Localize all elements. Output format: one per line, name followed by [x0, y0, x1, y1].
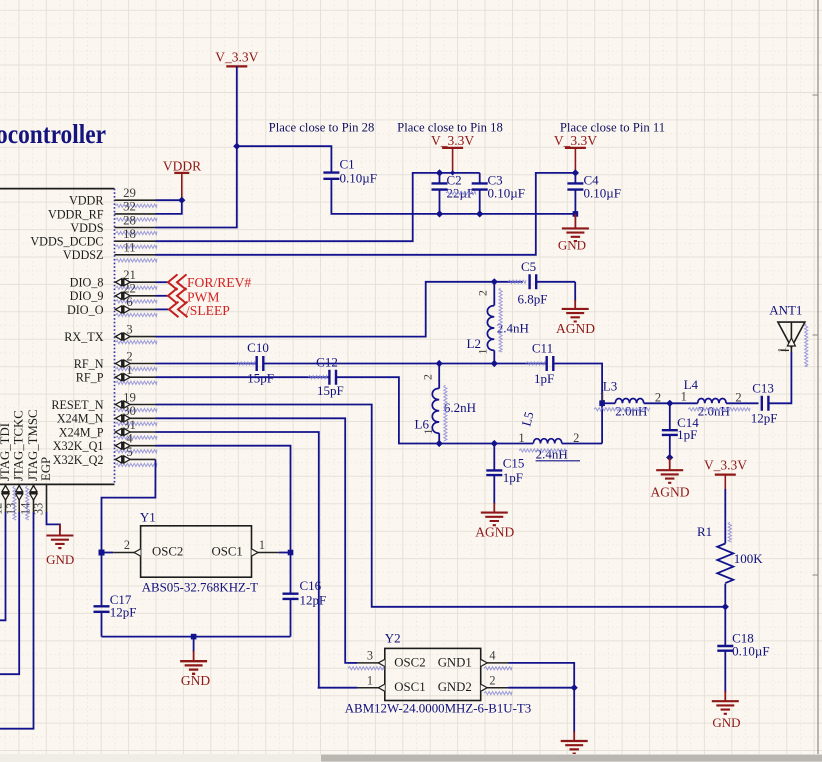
svg-text:GND2: GND2: [438, 680, 472, 694]
node B (L3/L4/C14): [666, 400, 673, 407]
svg-text:FOR/REV#: FOR/REV#: [187, 275, 251, 290]
svg-text:L4: L4: [684, 377, 699, 392]
pin 28 VDDS of U1: [70, 213, 157, 235]
pin 1 OSC1 of Y2: [318, 673, 385, 691]
pin 3 OSC2 of Y2: [348, 649, 385, 670]
pin 5 X32K_Q2 of U1: [53, 445, 157, 467]
node OSC2 junction: [99, 550, 105, 556]
pin 2 OSC2 of Y1: [102, 538, 141, 556]
svg-text:1pF: 1pF: [534, 371, 554, 386]
wire RX_TX to L2/C5: [156, 282, 524, 337]
svg-text:V_3.3V: V_3.3V: [704, 458, 747, 473]
svg-text:6.2nH: 6.2nH: [444, 400, 476, 415]
svg-text:Y2: Y2: [385, 630, 401, 645]
svg-text:0.10µF: 0.10µF: [732, 643, 769, 658]
svg-text:GND: GND: [46, 552, 74, 567]
inductor L2: [467, 282, 529, 364]
svg-text:JTAG_TDI: JTAG_TDI: [0, 423, 12, 481]
pin 33 EGP of U1 (bottom): [31, 457, 53, 515]
svg-text:C13: C13: [752, 380, 774, 395]
scrollbar: [0, 754, 822, 762]
ground AGND (C5): [556, 300, 595, 336]
pin 30 X24M_N of U1: [57, 404, 157, 426]
wire DIO_O: [156, 308, 170, 310]
svg-text:2: 2: [489, 673, 495, 687]
wire X32K_Q1 to Y1 OSC1: [156, 446, 291, 553]
wire C11 to node A: [554, 364, 603, 444]
svg-text:ABS05-32.768KHZ-T: ABS05-32.768KHZ-T: [142, 581, 258, 595]
ground GND (Y1): [180, 637, 210, 688]
capacitor C1: [323, 157, 377, 186]
pin 19 RESET_N of U1: [51, 390, 157, 412]
capacitor C18: [717, 607, 769, 692]
svg-text:2: 2: [421, 374, 435, 380]
node R1/C18/RESET junction: [722, 603, 729, 610]
wire X32K_Q2 to Y1 OSC2: [102, 459, 156, 552]
note Place close to Pin 11: [560, 121, 665, 135]
svg-text:DIO_8: DIO_8: [70, 276, 104, 290]
svg-text:GND1: GND1: [438, 655, 472, 669]
pin 2 GND2 of Y2: [481, 673, 512, 694]
wire DIO_9: [156, 295, 169, 297]
wire RF_N to C10: [156, 363, 257, 365]
inductor L5: [518, 410, 580, 462]
svg-text:VDDSZ: VDDSZ: [63, 248, 104, 262]
port FOR/REV#: [168, 274, 251, 290]
pin 13 JTAG_TCKC of U1 (bottom): [4, 410, 26, 515]
svg-text:1: 1: [259, 538, 265, 552]
svg-text:1: 1: [518, 431, 524, 445]
svg-text:AGND: AGND: [556, 321, 595, 336]
svg-text:VDDR: VDDR: [163, 159, 201, 174]
svg-text:1pF: 1pF: [503, 470, 523, 485]
wire L5 to node A: [562, 443, 602, 445]
svg-text:X24M_N: X24M_N: [57, 412, 104, 426]
node L2 bottom junction: [491, 360, 498, 367]
node VDDR junction: [178, 197, 185, 204]
wire X24M_P to Y2 OSC1: [156, 432, 319, 688]
sheet border right edge: [813, 0, 819, 754]
svg-text:C11: C11: [532, 341, 553, 356]
svg-text:ocontroller: ocontroller: [0, 119, 106, 149]
svg-text:0.10µF: 0.10µF: [488, 186, 525, 201]
pin 14 JTAG_TMSC of U1 (bottom): [18, 409, 40, 515]
svg-text:OSC2: OSC2: [394, 655, 425, 669]
power symbol V_3.3V (R1): [704, 458, 747, 491]
pin 12 JTAG_TDI of U1 (bottom): [0, 423, 12, 515]
wire V_3.3V rail to VDDS pin28: [156, 66, 237, 227]
wire C10 to L6/L2/C11: [264, 363, 547, 365]
svg-text:AGND: AGND: [475, 525, 514, 540]
port PWM: [168, 288, 219, 305]
power symbol V_3.3V (C4): [554, 133, 597, 173]
svg-text:C5: C5: [521, 259, 536, 274]
node Y1 GND junction: [191, 634, 197, 640]
pin 11 VDDSZ of U1: [63, 241, 157, 263]
svg-text:JTAG_TMSC: JTAG_TMSC: [26, 409, 40, 481]
capacitor C2: [432, 173, 477, 214]
svg-text:VDDR: VDDR: [69, 194, 104, 208]
svg-text:0.10µF: 0.10µF: [340, 171, 377, 186]
svg-text:OSC1: OSC1: [212, 545, 243, 559]
svg-text:12pF: 12pF: [110, 605, 137, 620]
svg-text:X24M_P: X24M_P: [59, 425, 104, 439]
antenna ANT1: [769, 303, 808, 367]
node L6 bottom junction: [436, 440, 443, 447]
inductor L3: [594, 378, 670, 418]
capacitor C10: [236, 340, 274, 386]
wire C13 to ANT1: [769, 352, 792, 403]
ground AGND (C14): [651, 458, 690, 500]
svg-text:0.10µF: 0.10µF: [584, 186, 621, 201]
pin 18 VDDS_DCDC of U1: [30, 227, 157, 249]
resistor R1: [697, 489, 763, 607]
ground AGND (C15): [475, 503, 514, 540]
pin 1 RF_P of U1: [76, 363, 157, 385]
node C15 junction: [491, 440, 498, 447]
power symbol V_3.3V (top): [215, 50, 258, 67]
node C2 bottom junction: [436, 210, 443, 217]
svg-text:V_3.3V: V_3.3V: [554, 133, 597, 148]
svg-text:RF_N: RF_N: [74, 357, 104, 371]
svg-text:OSC1: OSC1: [394, 680, 425, 694]
wire RF_P to C12: [156, 376, 330, 378]
wire RF bottom rail: [439, 443, 533, 445]
capacitor C15: [486, 444, 524, 505]
capacitor C17: [94, 553, 137, 637]
svg-text:EGP: EGP: [39, 457, 53, 481]
ground GND (Y2): [561, 731, 588, 754]
svg-text:VDDS_DCDC: VDDS_DCDC: [30, 235, 103, 249]
capacitor C12: [308, 355, 344, 399]
svg-text:/SLEEP: /SLEEP: [186, 303, 230, 318]
wire C5 to AGND: [574, 282, 576, 301]
svg-text:V_3.3V: V_3.3V: [215, 50, 258, 65]
svg-text:12pF: 12pF: [300, 593, 327, 608]
inductor L4: [670, 377, 759, 419]
node Y2 GND junction: [571, 684, 578, 691]
node OSC1 junction: [288, 550, 294, 556]
pin 32 VDDR_RF of U1: [48, 200, 157, 222]
node L6 top junction: [436, 360, 443, 367]
svg-text:11: 11: [123, 241, 135, 255]
crystal Y1 body: [140, 510, 258, 595]
svg-text:6.8pF: 6.8pF: [518, 292, 548, 307]
wire VDDR pin29 to power: [156, 199, 183, 201]
svg-text:2: 2: [735, 391, 741, 405]
note Place close to Pin 28: [269, 121, 375, 135]
capacitor C16: [283, 553, 327, 637]
capacitor C5: [508, 259, 575, 307]
svg-text:100K: 100K: [734, 551, 764, 566]
svg-text:RESET_N: RESET_N: [51, 398, 103, 412]
pin 22 DIO_9 of U1: [70, 282, 157, 304]
microcontroller title text: [0, 119, 106, 149]
wire VDDS_DCDC pin18 to V3.3 rail: [156, 173, 480, 241]
port /SLEEP: [169, 302, 230, 319]
node C3 bottom junction: [476, 210, 483, 217]
node GND rail at C4: [573, 211, 579, 217]
svg-text:ABM12W-24.0000MHZ-6-B1U-T3: ABM12W-24.0000MHZ-6-B1U-T3: [345, 702, 532, 716]
capacitor C11: [526, 341, 554, 386]
svg-text:2: 2: [655, 391, 661, 405]
svg-text:L3: L3: [603, 378, 617, 393]
pin 4 X32K_Q1 of U1: [53, 432, 157, 454]
svg-text:C1: C1: [340, 157, 355, 172]
node L2 top junction: [491, 278, 498, 285]
svg-text:2: 2: [476, 290, 490, 296]
svg-text:L2: L2: [467, 336, 481, 351]
svg-text:C10: C10: [247, 340, 269, 355]
pin 6 DIO_O of U1: [67, 295, 157, 317]
svg-text:GND: GND: [558, 238, 586, 253]
svg-text:V_3.3V: V_3.3V: [431, 133, 474, 148]
svg-text:VDDR_RF: VDDR_RF: [48, 207, 104, 221]
svg-text:X32K_Q1: X32K_Q1: [53, 439, 104, 453]
capacitor C4: [567, 173, 621, 214]
svg-text:L6: L6: [415, 417, 430, 432]
power symbol VDDR: [163, 159, 201, 201]
svg-text:C15: C15: [503, 456, 525, 471]
pin 29 VDDR of U1: [69, 186, 157, 208]
compile-mask squiggles on bottom pins: [13, 486, 29, 520]
svg-text:OSC2: OSC2: [152, 545, 183, 559]
svg-text:RX_TX: RX_TX: [64, 330, 103, 344]
wire JTAG_TMSC: [0, 512, 34, 729]
crystal Y2 body: [345, 630, 532, 715]
svg-text:Y1: Y1: [140, 510, 156, 525]
svg-text:R1: R1: [697, 524, 712, 539]
svg-text:1: 1: [777, 347, 789, 353]
capacitor C3: [472, 173, 525, 214]
pin 31 X24M_P of U1: [59, 418, 157, 440]
wire X24M_N to Y2 OSC2: [156, 418, 348, 663]
wire JTAG_TDI: [0, 512, 6, 620]
wire JTAG_TCKC: [0, 512, 19, 674]
svg-text:2: 2: [124, 538, 130, 552]
capacitor C14: [662, 403, 699, 457]
wire DIO_8: [156, 281, 169, 283]
svg-text:15pF: 15pF: [317, 383, 344, 398]
svg-text:ANT1: ANT1: [769, 303, 802, 318]
inductor L6: [415, 364, 477, 444]
wire VDDSZ pin11 to C4: [156, 173, 576, 255]
node A (C11/L5/L3): [599, 401, 605, 407]
wire EGP to ground: [47, 512, 60, 531]
pin 3 RX_TX of U1: [64, 322, 157, 344]
svg-text:28: 28: [123, 213, 136, 227]
ground GND (C4): [558, 214, 589, 253]
svg-text:X32K_Q2: X32K_Q2: [53, 453, 104, 467]
svg-text:DIO_9: DIO_9: [70, 289, 104, 303]
ground GND (C18): [712, 691, 741, 730]
svg-text:GND: GND: [712, 715, 740, 730]
power symbol V_3.3V (C2): [431, 133, 474, 173]
wire VDDR_RF pin32 to power: [156, 200, 182, 214]
wire Y2 grounds: [508, 663, 574, 732]
node C4 top junction: [572, 169, 579, 176]
svg-text:JTAG_TCKC: JTAG_TCKC: [12, 410, 26, 481]
wire RESET_N to R1/C18: [156, 405, 726, 607]
svg-text:3: 3: [367, 649, 373, 663]
pin 21 DIO_8 of U1: [70, 268, 157, 290]
svg-text:12pF: 12pF: [751, 411, 778, 426]
svg-text:32: 32: [123, 200, 136, 214]
wire C1 bottom to GND rail: [331, 179, 575, 214]
svg-text:DIO_O: DIO_O: [67, 303, 104, 317]
capacitor C13: [751, 380, 778, 425]
node V3.3 junction to C1: [233, 143, 240, 150]
svg-text:Place close to Pin 28: Place close to Pin 28: [269, 121, 375, 135]
svg-text:1: 1: [367, 673, 373, 687]
svg-text:RF_P: RF_P: [76, 371, 104, 385]
svg-text:18: 18: [123, 227, 136, 241]
pin 2 RF_N of U1: [74, 349, 157, 371]
microcontroller U1 body outline: [0, 189, 115, 485]
svg-text:VDDS: VDDS: [70, 221, 103, 235]
wire to C1 top: [237, 146, 332, 172]
wire C17/C16 bottoms to GND: [102, 636, 291, 638]
pin 1 OSC1 of Y1: [252, 538, 291, 556]
svg-text:AGND: AGND: [651, 485, 690, 500]
note Place close to Pin 18: [397, 121, 503, 135]
ground GND (EGP): [46, 524, 74, 567]
svg-text:GND: GND: [181, 673, 210, 688]
node C2 top junction: [436, 169, 455, 176]
svg-text:1pF: 1pF: [677, 427, 697, 442]
node C14 bottom: [666, 454, 673, 461]
svg-text:29: 29: [123, 186, 136, 200]
svg-text:4: 4: [489, 649, 495, 663]
svg-text:C12: C12: [316, 355, 338, 370]
wire C12 to RF bottom rail: [336, 377, 439, 443]
pin 4 GND1 of Y2: [481, 649, 512, 670]
